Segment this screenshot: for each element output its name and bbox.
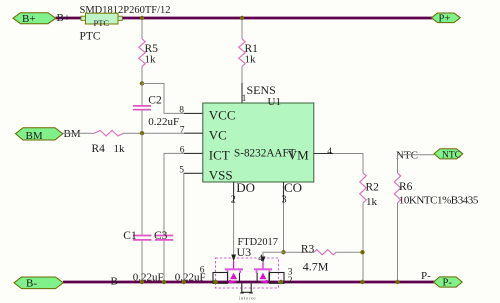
svg-text:P-: P-	[443, 277, 453, 288]
svg-text:6: 6	[180, 146, 185, 156]
svg-text:S-8232AAFT: S-8232AAFT	[234, 147, 296, 159]
junction R3 / R2 column	[360, 250, 364, 254]
thermistor PTC body	[81, 13, 122, 28]
junction bus U3 right	[279, 280, 283, 284]
svg-text:R2: R2	[366, 182, 380, 194]
transistor Q1 gate arrow	[231, 255, 236, 269]
svg-text:3: 3	[282, 194, 287, 205]
wire top bus B+ to PTC	[56, 17, 83, 20]
svg-text:10KNTC1%B3435: 10KNTC1%B3435	[399, 195, 479, 207]
wire NTC net	[398, 155, 435, 173]
svg-text:C1: C1	[123, 230, 137, 242]
svg-text:PTC: PTC	[80, 31, 101, 43]
wire pin 6 to C3	[164, 153, 203, 235]
port BM	[16, 128, 63, 143]
capacitor C1	[133, 133, 152, 282]
svg-text:4.7M: 4.7M	[303, 260, 329, 274]
svg-text:6: 6	[200, 265, 205, 275]
svg-text:VC: VC	[209, 128, 227, 143]
resistor R2	[360, 173, 366, 282]
resistor R4	[94, 130, 124, 136]
svg-text:B-: B-	[111, 276, 122, 288]
transistor Q1 MOSFET symbol	[225, 268, 243, 283]
svg-text:0.22uF: 0.22uF	[148, 116, 179, 128]
resistor R3 wires	[284, 251, 363, 253]
svg-text:C2: C2	[148, 95, 162, 107]
junction BM wire / C2 column	[140, 131, 144, 135]
svg-text:4: 4	[258, 254, 263, 264]
svg-text:1k: 1k	[366, 196, 378, 208]
resistor R5	[139, 20, 145, 84]
port P-	[434, 277, 463, 289]
wire BM to pin 7	[63, 132, 203, 134]
svg-text:4: 4	[327, 147, 332, 157]
wire VCC net (junction to pin 8)	[142, 84, 184, 114]
wire top bus PTC to P+	[122, 17, 433, 20]
junction top bus at R5	[140, 16, 144, 20]
capacitor C2	[133, 84, 151, 134]
junction bus pin5	[182, 280, 186, 284]
svg-text:1k: 1k	[145, 54, 157, 66]
svg-text:P-: P-	[421, 270, 431, 282]
svg-text:R6: R6	[399, 181, 413, 193]
op-amp U1 IC body S-8232AAFT	[203, 103, 314, 195]
junction bus C1	[140, 280, 144, 284]
svg-text:R4: R4	[92, 143, 106, 155]
svg-text:VCC: VCC	[209, 107, 236, 122]
svg-text:5: 5	[179, 166, 184, 176]
capacitor C3	[155, 236, 174, 283]
resistor R6	[394, 173, 400, 282]
wire pin 5 to bus	[184, 173, 203, 282]
svg-text:7: 7	[180, 125, 185, 135]
junction top bus at R1	[240, 16, 244, 20]
port B+	[13, 13, 56, 25]
wire SENS pin	[241, 83, 243, 103]
svg-text:B+: B+	[57, 12, 71, 24]
wire U3 common source bracket	[240, 283, 253, 293]
svg-text:C3: C3	[154, 230, 168, 242]
transistor Q2 gate arrow	[261, 257, 266, 269]
svg-text:8: 8	[179, 106, 184, 116]
transistor pair U3 dashed box	[216, 258, 279, 288]
wire bottom bus B- to P-	[63, 281, 435, 284]
svg-text:CO: CO	[284, 180, 302, 195]
junction bus U3 left	[213, 280, 217, 284]
svg-text:VM: VM	[288, 148, 309, 163]
svg-text:ICT: ICT	[209, 148, 230, 163]
wire CO to right gate	[263, 252, 284, 256]
svg-text:BM: BM	[64, 128, 81, 140]
wire CO pin 3	[283, 182, 285, 252]
junction R5/C2	[140, 81, 144, 85]
resistor R1	[239, 20, 245, 84]
resistor R3	[314, 250, 336, 255]
svg-text:P+: P+	[439, 13, 451, 24]
svg-text:B-: B-	[26, 278, 37, 290]
transistor Q2 MOSFET symbol	[254, 268, 272, 283]
junction CO / R3 / gate	[281, 250, 285, 254]
port NTC	[434, 149, 463, 161]
svg-text:PTC: PTC	[94, 18, 110, 28]
svg-text:1k: 1k	[245, 54, 257, 66]
wire DO pin 2	[233, 182, 235, 255]
svg-text:VSS: VSS	[209, 168, 233, 183]
junction bus C3	[162, 280, 166, 284]
wire pin 4 VM to R2	[314, 154, 363, 174]
junction bus R2	[360, 280, 364, 284]
port B-	[14, 277, 63, 290]
svg-text:U1: U1	[268, 96, 281, 108]
port P+	[432, 13, 461, 24]
junction bus R6	[395, 280, 399, 284]
svg-text:0.22uF: 0.22uF	[133, 272, 164, 284]
svg-text:2: 2	[288, 276, 293, 286]
svg-text:i n f o r s o: i n f o r s o	[239, 296, 256, 300]
svg-text:U3: U3	[237, 245, 252, 259]
svg-text:2: 2	[231, 194, 236, 205]
svg-text:R3: R3	[301, 243, 315, 255]
svg-text:DO: DO	[236, 180, 255, 195]
svg-text:NTC: NTC	[396, 149, 418, 161]
svg-text:NTC: NTC	[442, 151, 461, 161]
svg-text:B+: B+	[22, 13, 36, 25]
wire U3 drain left loop	[213, 273, 228, 284]
svg-text:BM: BM	[26, 130, 43, 142]
svg-text:1k: 1k	[114, 143, 126, 155]
wire U3 drain right loop	[270, 273, 285, 284]
